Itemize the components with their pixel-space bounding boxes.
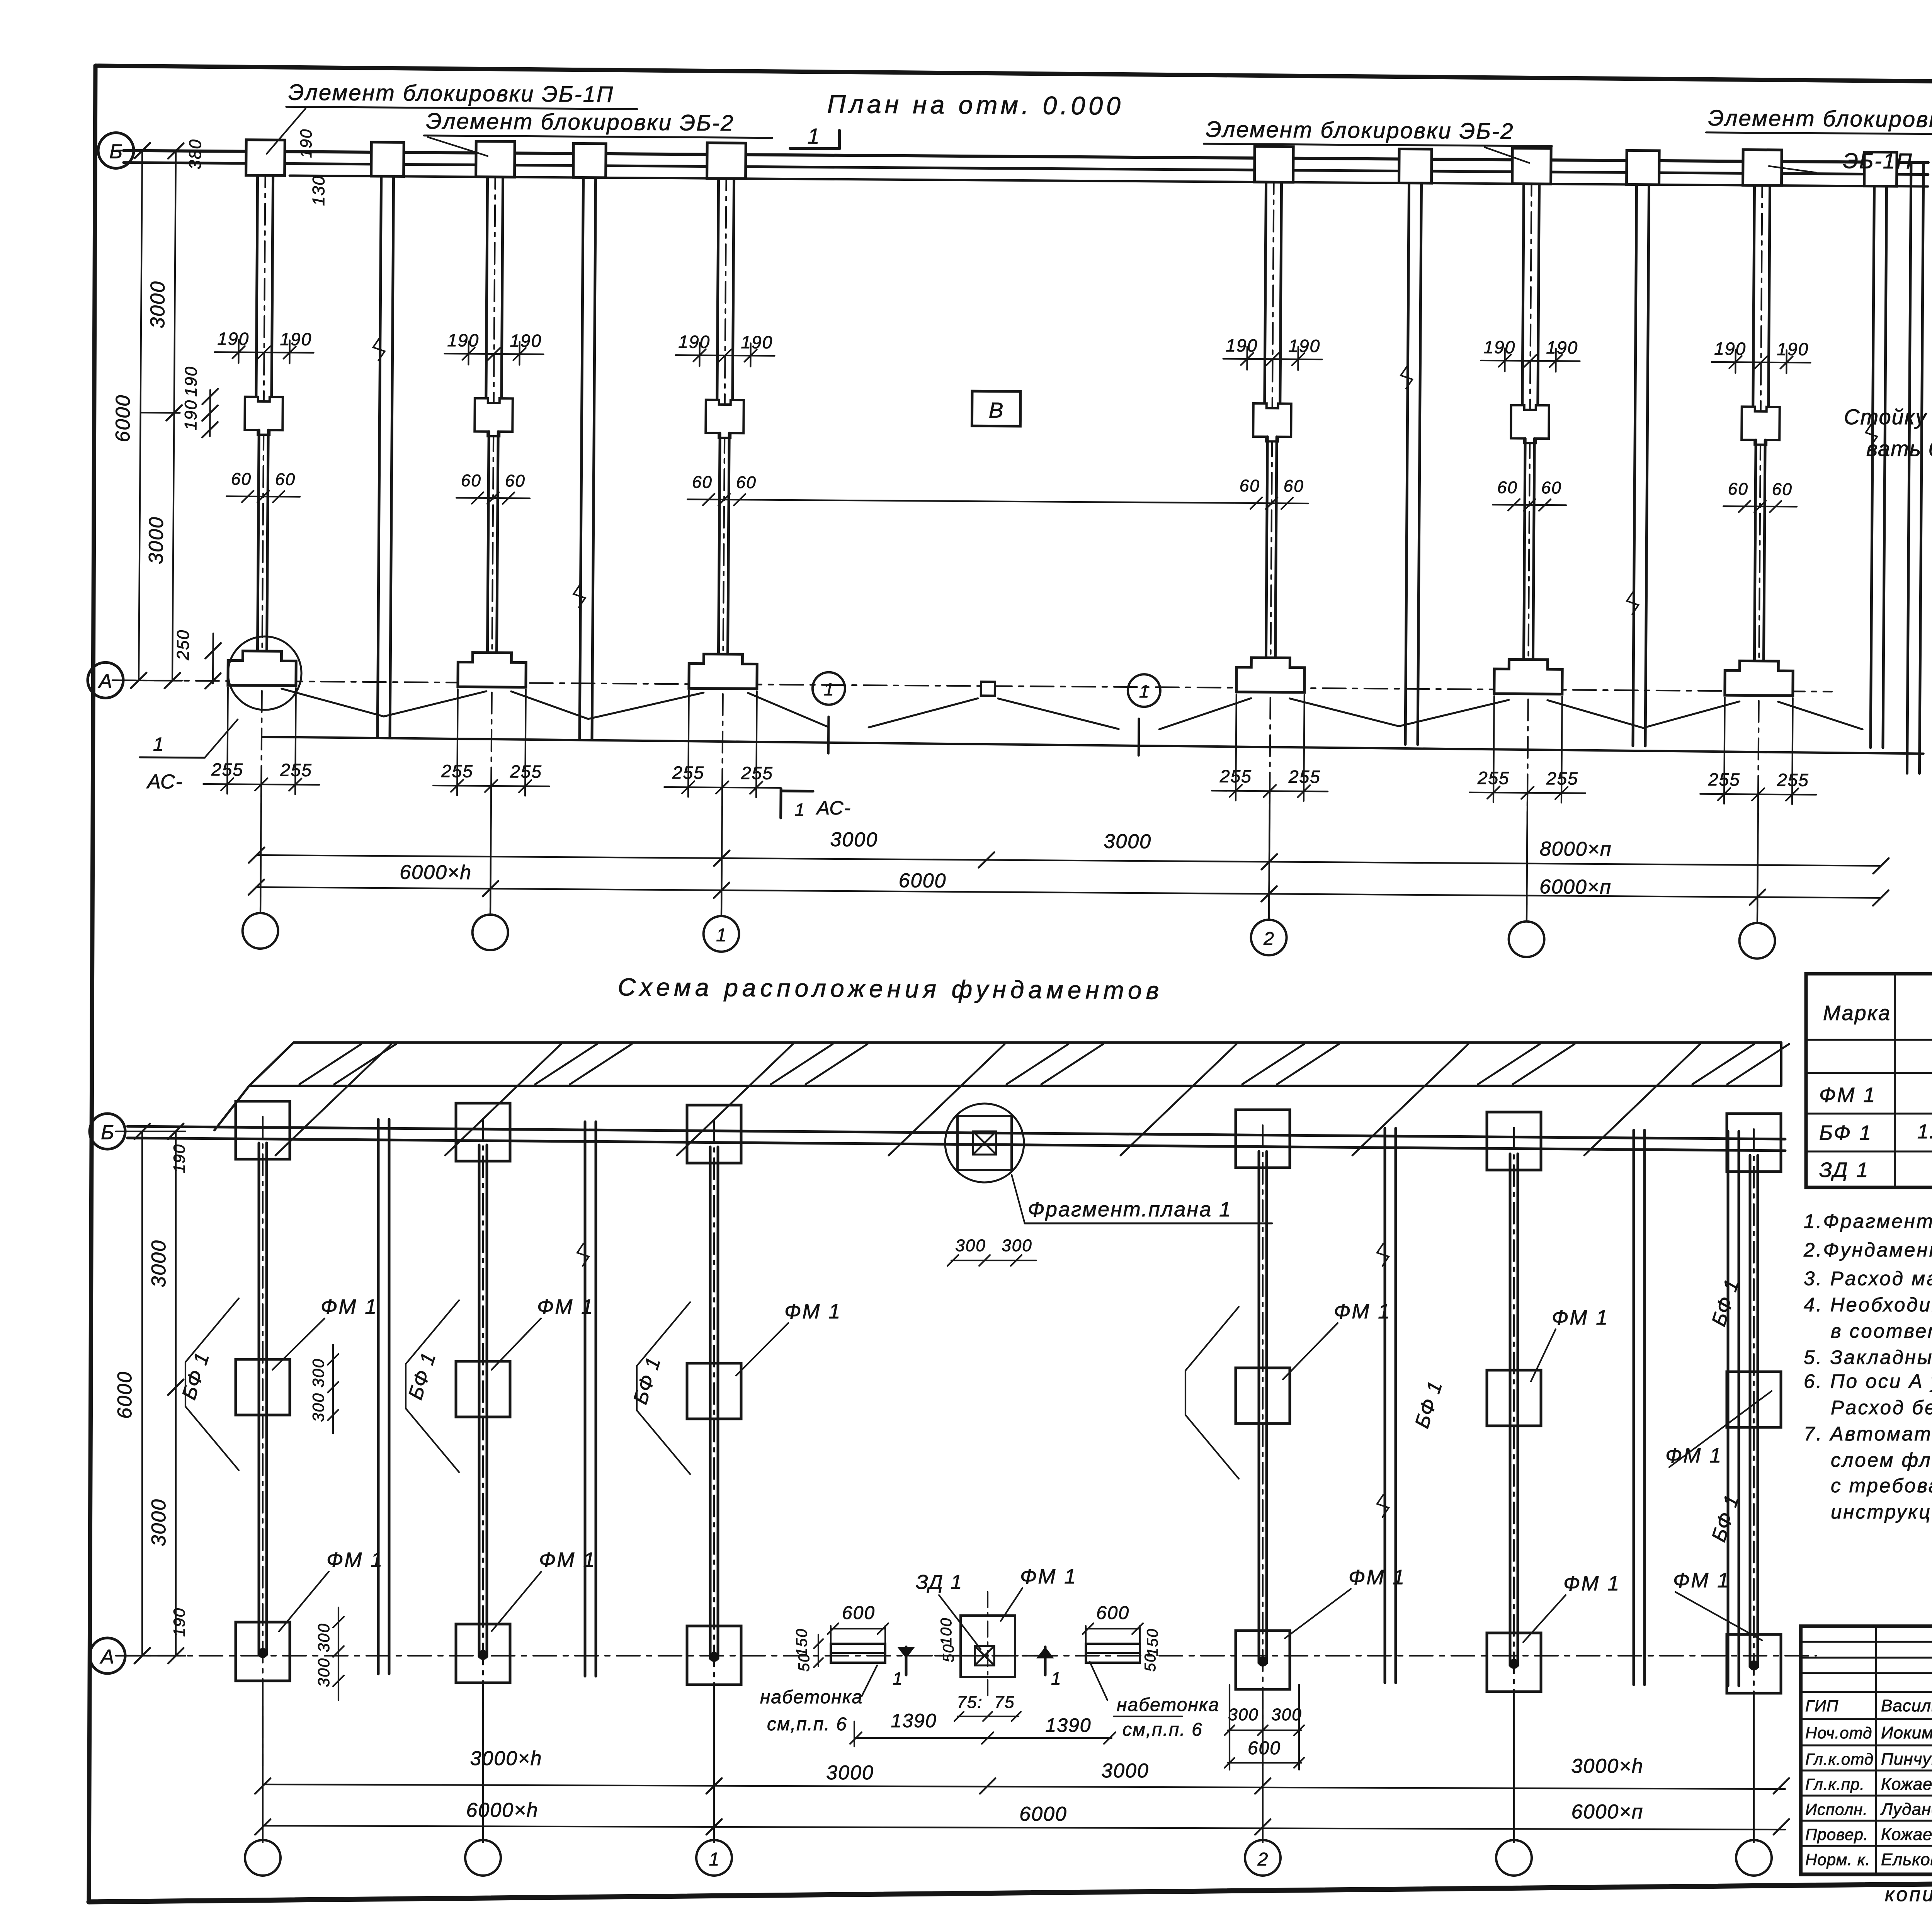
svg-text:в соответствии с природными ус: в соответствии с природными условиями пл…: [1831, 1320, 1932, 1342]
svg-text:300: 300: [1271, 1705, 1302, 1724]
svg-text:60: 60: [1772, 480, 1793, 499]
svg-text:слоем флюса без присадочног: слоем флюса без присадочного электродног…: [1831, 1449, 1932, 1471]
svg-text:1.038.1-1; в.1: 1.038.1-1; в.1: [1917, 1121, 1932, 1143]
svg-text:60: 60: [1541, 478, 1562, 497]
svg-text:ФМ 1: ФМ 1: [327, 1548, 384, 1571]
svg-text:Кожаев: Кожаев: [1881, 1825, 1932, 1844]
svg-text:3000×h: 3000×h: [1571, 1755, 1644, 1777]
svg-text:ФМ 1: ФМ 1: [1552, 1306, 1609, 1329]
svg-text:600: 600: [1248, 1738, 1281, 1759]
svg-text:Иоким: Иоким: [1881, 1723, 1932, 1742]
svg-text:набетонка: набетонка: [1117, 1695, 1219, 1715]
svg-text:ФМ 1: ФМ 1: [1819, 1083, 1876, 1107]
svg-text:набетонка: набетонка: [760, 1687, 863, 1708]
svg-text:ФМ 1: ФМ 1: [784, 1300, 842, 1323]
svg-text:Исполн.: Исполн.: [1805, 1800, 1868, 1818]
svg-text:600: 600: [1096, 1603, 1129, 1623]
svg-text:3000: 3000: [148, 1240, 170, 1287]
svg-text:100: 100: [938, 1617, 955, 1646]
svg-text:А: А: [97, 670, 112, 692]
svg-text:ФМ 1: ФМ 1: [1563, 1572, 1621, 1595]
svg-text:2.Фундаменты выполнить из бет: 2.Фундаменты выполнить из бетона В 7,5 (…: [1803, 1239, 1932, 1261]
svg-text:БФ 1: БФ 1: [1411, 1378, 1447, 1431]
svg-text:Марка: Марка: [1823, 1002, 1891, 1025]
svg-text:Гл.к.пр.: Гл.к.пр.: [1805, 1775, 1865, 1793]
svg-text:6000×п: 6000×п: [1539, 876, 1612, 898]
svg-text:ФМ 1: ФМ 1: [1673, 1569, 1730, 1592]
svg-text:Стойку обетониро-: Стойку обетониро-: [1844, 405, 1932, 429]
svg-text:75:: 75:: [957, 1693, 983, 1712]
svg-text:150: 150: [793, 1628, 810, 1656]
svg-text:Схема расположения фундаменто: Схема расположения фундаментов: [617, 973, 1163, 1004]
svg-text:Ельков: Ельков: [1881, 1850, 1932, 1869]
svg-text:250: 250: [173, 629, 193, 661]
svg-text:1: 1: [153, 733, 164, 755]
svg-text:Элемент блокировки: Элемент блокировки: [1708, 105, 1932, 132]
svg-text:с требованиями ГОСТ 19292-73: с требованиями ГОСТ 19292-73, тип соедин…: [1831, 1475, 1932, 1497]
svg-text:Элемент блокировки ЭБ-2: Элемент блокировки ЭБ-2: [426, 109, 734, 136]
svg-text:3000: 3000: [148, 1498, 170, 1546]
svg-text:Ноч.отд: Ноч.отд: [1805, 1724, 1872, 1742]
svg-text:ФМ 1: ФМ 1: [1349, 1566, 1406, 1589]
svg-text:6000×h: 6000×h: [466, 1799, 539, 1821]
svg-text:2: 2: [1257, 1849, 1268, 1870]
svg-text:ФМ 1: ФМ 1: [537, 1295, 594, 1318]
svg-text:ЗД 1: ЗД 1: [1819, 1158, 1869, 1182]
svg-text:БФ 1: БФ 1: [178, 1349, 214, 1402]
svg-text:3000: 3000: [1101, 1760, 1149, 1782]
svg-text:ЗД 1: ЗД 1: [916, 1571, 963, 1594]
svg-text:600: 600: [842, 1603, 875, 1623]
svg-text:380: 380: [186, 139, 205, 170]
svg-text:ФМ 1: ФМ 1: [1334, 1300, 1391, 1323]
svg-text:300: 300: [1002, 1236, 1032, 1255]
svg-text:АС-: АС-: [816, 797, 852, 819]
svg-text:6000×h: 6000×h: [400, 861, 472, 884]
svg-text:60: 60: [461, 471, 481, 490]
svg-text:Пинчукова: Пинчукова: [1881, 1750, 1932, 1769]
svg-text:6. По оси А устроить набетонк: 6. По оси А устроить набетонки для ворот…: [1804, 1370, 1932, 1392]
svg-text:1390: 1390: [1045, 1714, 1091, 1736]
svg-text:АС-: АС-: [146, 770, 183, 793]
svg-text:Гл.к.отд: Гл.к.отд: [1805, 1750, 1874, 1768]
svg-text:190: 190: [170, 1607, 188, 1637]
svg-text:300: 300: [315, 1623, 333, 1652]
svg-text:БФ 1: БФ 1: [629, 1354, 665, 1407]
svg-text:1: 1: [716, 925, 726, 946]
svg-text:130: 130: [309, 175, 328, 206]
svg-text:Кожаев: Кожаев: [1881, 1775, 1932, 1794]
svg-text:300: 300: [1228, 1705, 1259, 1724]
svg-text:4. Необходимость гравийно-песч: 4. Необходимость гравийно-песчаной подуш…: [1804, 1294, 1932, 1316]
svg-text:3000: 3000: [146, 281, 169, 328]
svg-text:вать бетоном: вать бетоном: [1866, 436, 1932, 461]
svg-text:190: 190: [182, 366, 201, 397]
svg-text:3000×h: 3000×h: [470, 1747, 543, 1770]
svg-text:1.Фрагмент плана 1 см. лист А: 1.Фрагмент плана 1 см. лист АС-: [1804, 1210, 1932, 1232]
svg-text:Норм. к.: Норм. к.: [1805, 1850, 1870, 1869]
svg-text:инструкций СН 393-78 ( п. 3.3: инструкций СН 393-78 ( п. 3.30 ÷ 3.39 ) …: [1831, 1501, 1932, 1523]
svg-text:А: А: [100, 1646, 114, 1668]
svg-text:6000: 6000: [114, 1371, 136, 1419]
svg-text:60: 60: [1497, 478, 1518, 497]
svg-text:1: 1: [893, 1668, 903, 1689]
svg-text:8000×п: 8000×п: [1540, 838, 1612, 861]
svg-text:Элемент блокировки ЭБ-2: Элемент блокировки ЭБ-2: [1206, 117, 1514, 144]
svg-text:Элемент блокировки ЭБ-1П: Элемент блокировки ЭБ-1П: [288, 80, 614, 107]
svg-text:см,п.п. 6: см,п.п. 6: [767, 1714, 847, 1735]
svg-text:1: 1: [709, 1849, 719, 1870]
svg-text:5. Закладные детали защитить ц: 5. Закладные детали защитить цинковым по…: [1804, 1346, 1932, 1368]
svg-text:150: 150: [1144, 1628, 1161, 1656]
svg-text:6000: 6000: [1019, 1803, 1067, 1825]
svg-text:1: 1: [795, 799, 806, 820]
svg-text:ФМ 1: ФМ 1: [1020, 1565, 1077, 1588]
svg-text:60: 60: [736, 473, 757, 492]
svg-text:План на отм. 0.000: План на отм. 0.000: [827, 90, 1124, 120]
svg-text:1: 1: [808, 124, 820, 148]
svg-text:ФМ 1: ФМ 1: [539, 1548, 596, 1571]
svg-text:ЭБ-1П: ЭБ-1П: [1843, 148, 1913, 173]
svg-text:3000: 3000: [830, 828, 878, 851]
svg-text:60: 60: [231, 469, 252, 488]
svg-text:300: 300: [315, 1658, 333, 1687]
svg-text:6000: 6000: [899, 869, 947, 892]
svg-text:60: 60: [505, 471, 526, 490]
svg-text:БФ 1: БФ 1: [1819, 1121, 1872, 1145]
svg-text:Б: Б: [109, 140, 122, 163]
svg-text:см,п.п. 6: см,п.п. 6: [1122, 1719, 1203, 1740]
svg-text:60: 60: [1284, 477, 1304, 496]
svg-text:60: 60: [275, 470, 296, 489]
svg-text:190: 190: [181, 400, 201, 430]
svg-text:Провер.: Провер.: [1805, 1825, 1869, 1844]
svg-text:300: 300: [309, 1393, 327, 1422]
svg-text:1: 1: [1139, 681, 1149, 701]
svg-text:В: В: [989, 398, 1003, 422]
svg-text:БФ 1: БФ 1: [404, 1349, 440, 1402]
svg-text:60: 60: [1240, 476, 1260, 495]
svg-text:300: 300: [955, 1236, 986, 1255]
svg-text:3000: 3000: [145, 516, 168, 564]
svg-text:Васильев: Васильев: [1881, 1696, 1932, 1715]
svg-text:ФМ 1: ФМ 1: [321, 1295, 378, 1318]
svg-text:3. Расход материалов на одну з: 3. Расход материалов на одну закладную д…: [1804, 1267, 1932, 1289]
svg-text:Луданова: Луданова: [1880, 1800, 1932, 1819]
svg-text:1: 1: [824, 679, 834, 699]
svg-text:ГИП: ГИП: [1805, 1697, 1838, 1715]
svg-text:50: 50: [796, 1653, 813, 1672]
svg-text:2: 2: [1263, 929, 1274, 949]
svg-text:300: 300: [309, 1358, 327, 1388]
svg-text:50: 50: [940, 1644, 957, 1663]
svg-text:190: 190: [297, 129, 315, 158]
svg-text:3000: 3000: [1104, 830, 1151, 853]
svg-text:6000×п: 6000×п: [1571, 1801, 1644, 1823]
svg-text:60: 60: [1728, 480, 1748, 498]
svg-text:7. Автоматическую сварку сте: 7. Автоматическую сварку стержней с плас…: [1804, 1423, 1932, 1445]
svg-text:190: 190: [170, 1144, 188, 1173]
svg-text:50: 50: [1142, 1653, 1159, 1672]
svg-text:1390: 1390: [891, 1710, 937, 1731]
svg-text:1: 1: [1051, 1668, 1062, 1689]
svg-text:Фрагмент.плана 1: Фрагмент.плана 1: [1028, 1198, 1232, 1221]
svg-text:3000: 3000: [826, 1762, 874, 1784]
svg-text:75: 75: [995, 1693, 1015, 1712]
svg-text:6000: 6000: [112, 395, 134, 442]
svg-text:Расход бетона на набетонки: Расход бетона на набетонки на один бокс …: [1831, 1396, 1932, 1418]
svg-text:60: 60: [692, 473, 713, 492]
svg-text:Б: Б: [101, 1121, 114, 1144]
svg-text:копировал: копировал: [1885, 1883, 1932, 1906]
